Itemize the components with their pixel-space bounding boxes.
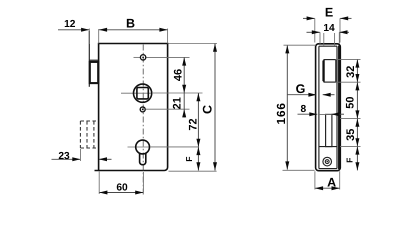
extension line case top to C [169, 43, 218, 45]
wire: faceplate step line [89, 59, 98, 61]
svg-text:72: 72 [187, 118, 199, 130]
svg-text:50: 50 [345, 96, 357, 108]
step line at bolt [319, 113, 337, 115]
dimension 50 [340, 82, 361, 118]
extension line lower hole [146, 108, 190, 110]
svg-text:46: 46 [172, 69, 184, 81]
dimension F right [345, 146, 360, 170]
dimension 32 [336, 59, 361, 82]
svg-text:C: C [201, 105, 215, 114]
bolt guide box [319, 114, 337, 146]
dimension 46 [172, 57, 186, 93]
euro profile cylinder hole [128, 140, 151, 165]
dimension B [99, 17, 168, 44]
dimension 35 [340, 119, 361, 147]
dimension C [201, 44, 217, 171]
extension line cylinder center [150, 146, 199, 148]
svg-text:23: 23 [58, 151, 70, 162]
svg-text:F: F [345, 158, 355, 163]
svg-text:E: E [325, 6, 333, 20]
dimension 8 [298, 104, 345, 116]
follower square spindle hub [121, 84, 152, 102]
svg-text:14: 14 [323, 23, 335, 34]
svg-text:F: F [184, 156, 194, 161]
dimension 72 [187, 93, 200, 171]
dimension 166 [274, 45, 316, 169]
wire: case body outline [95, 44, 168, 171]
dimension 21 [171, 93, 186, 118]
dimension F left [184, 147, 201, 171]
svg-text:21: 21 [171, 97, 183, 109]
svg-text:32: 32 [345, 66, 357, 78]
svg-text:B: B [126, 17, 135, 31]
hidden bolt thrown position (dashed box) [80, 121, 98, 148]
latch cutout [323, 60, 336, 83]
dimension 23 [52, 149, 112, 162]
dimension 12 [58, 19, 89, 44]
case inner top [319, 45, 337, 47]
svg-text:8: 8 [300, 104, 306, 115]
faceplate dark band right [338, 46, 340, 170]
svg-text:12: 12 [64, 19, 76, 30]
top fixing hole [134, 55, 146, 60]
svg-text:35: 35 [345, 129, 357, 141]
dimension 60 [99, 172, 143, 195]
lower fixing hole [140, 107, 145, 112]
dimension E [303, 6, 352, 43]
case inner bottom [319, 168, 337, 170]
centerline vertical axis of holes [142, 45, 144, 197]
extension line follower center [152, 92, 203, 94]
wire: faceplate left edge [88, 31, 90, 87]
extension line hole top [147, 56, 190, 58]
svg-text:60: 60 [116, 183, 128, 194]
svg-text:A: A [327, 176, 336, 190]
case outer profile [316, 44, 341, 171]
svg-text:166: 166 [274, 102, 288, 124]
dimension G [288, 82, 335, 97]
extension line bottom long [169, 170, 217, 172]
case inner wall left [318, 46, 320, 168]
dimension A [315, 171, 340, 190]
svg-text:G: G [296, 82, 306, 96]
screw head [323, 157, 332, 166]
case inner wall right [336, 46, 338, 168]
bolt protruding box [90, 62, 98, 83]
dimension 14 [307, 23, 350, 46]
